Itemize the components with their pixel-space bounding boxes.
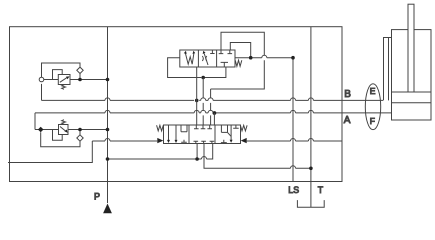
- wire DV1 outer pilot loop: [211, 32, 265, 89]
- relief valve RV1 diamond: [77, 67, 83, 73]
- svg-text:E: E: [370, 86, 376, 96]
- directional valve DV1 body: [180, 50, 235, 67]
- DV1 left port loop: [168, 58, 202, 78]
- relief valve RV1 spring: [62, 85, 66, 90]
- wire A line: [35, 112, 392, 114]
- wire x203.2 junction down to DV2: [202, 78, 204, 126]
- svg-text:A: A: [344, 115, 351, 126]
- hop B over P: [105, 98, 110, 101]
- hop A over LS: [291, 110, 296, 113]
- DV1 spring right: [235, 60, 242, 66]
- relief valve RV1 arrow: [60, 78, 67, 83]
- relief valve RV2 body: [59, 125, 69, 135]
- hop A over 196.7: [194, 110, 199, 113]
- relief valve RV2 pilot loop: [53, 130, 63, 141]
- hop A over P: [105, 110, 110, 113]
- DV2 pilot arrow right: [241, 138, 247, 143]
- junction LS top: [291, 56, 295, 60]
- junction y159 x197: [195, 157, 199, 161]
- DV1 middle cell metered arrow: [204, 54, 208, 66]
- wire pilot line left: [92, 140, 157, 142]
- relief valve RV2 main line: [35, 129, 108, 131]
- svg-text:T: T: [318, 185, 324, 195]
- wire loop to right port: [205, 67, 226, 78]
- hop A over T: [308, 110, 313, 113]
- node LS vertical: [292, 58, 294, 182]
- junction A x214.4: [213, 111, 217, 115]
- hop B over 203: [201, 98, 206, 101]
- wire A left corner to RV2: [34, 113, 36, 130]
- cylinder CYL1 body: [392, 30, 432, 120]
- wire DV2 bottom port x197: [196, 144, 198, 160]
- node T vertical: [310, 27, 312, 208]
- relief valve RV2 port diamond solid: [38, 127, 44, 133]
- DV1 spring pilot line: [235, 57, 293, 59]
- relief valve RV2 bypass line: [41, 132, 80, 146]
- wire x196.7 DV1 to B to DV2: [196, 67, 198, 125]
- junction RV1 at P: [106, 78, 110, 82]
- junction RV2 at P: [106, 128, 110, 132]
- wire diamond to main: [79, 74, 81, 80]
- svg-text:P: P: [94, 192, 100, 202]
- hop A over 203: [201, 110, 206, 113]
- relief valve RV2 arrow: [60, 127, 66, 132]
- bracket under LS T: [297, 200, 324, 207]
- wire B left corner to RV1 circle: [41, 84, 43, 101]
- wire DV1 inner pilot loop: [230, 43, 250, 58]
- DV1 middle cell blocked port: [210, 51, 214, 54]
- hop spring line over 264.3: [262, 55, 267, 58]
- port P arrow: [103, 204, 112, 214]
- cylinder piston: [392, 92, 432, 103]
- wire pilot line right: [247, 140, 342, 142]
- hop pilot left over P: [105, 139, 110, 142]
- manifold block outline: [10, 27, 343, 182]
- junction spring line x250.7: [249, 56, 253, 60]
- svg-text:LS: LS: [288, 185, 299, 195]
- wire P branch line y159: [108, 144, 213, 160]
- hop pilot right over T: [308, 139, 313, 142]
- hop tank line over LS: [291, 166, 296, 169]
- DV1 right cell blocked ports: [219, 51, 224, 54]
- wire pilot left down to edge line: [8, 141, 92, 163]
- DV2 middle cell blocked ports: [194, 126, 199, 129]
- svg-text:F: F: [370, 116, 375, 126]
- cylinder port pipe: [384, 38, 392, 101]
- wire DV2 bottom port x204 tank: [204, 144, 311, 169]
- hop pilot right over LS: [291, 139, 296, 142]
- DV1 left cell arrows: [185, 53, 194, 64]
- node P supply vertical: [107, 27, 109, 203]
- wire x214.4 A junction down to DV2: [213, 113, 215, 125]
- junction tank at T: [309, 167, 313, 171]
- wire diamond2 to main: [79, 130, 81, 135]
- hop y159 over 204: [202, 157, 207, 160]
- hop B over LS: [291, 98, 296, 101]
- wire B line: [42, 99, 384, 101]
- DV2 left cell paths: [168, 126, 170, 141]
- DV2 spring right: [240, 125, 247, 131]
- relief valve RV1 main line: [44, 79, 108, 81]
- relief valve RV2 diamond: [77, 135, 83, 141]
- relief valve RV1 port circle: [39, 77, 44, 82]
- hose ellipse EF: [365, 84, 380, 130]
- hop B over 210.6: [208, 98, 213, 101]
- svg-text:B: B: [344, 89, 351, 100]
- junction RV1 x80: [78, 78, 82, 82]
- relief valve RV1 pilot loop: [53, 70, 63, 80]
- DV2 pilot arrow left: [157, 138, 163, 143]
- junction y159 at P: [106, 157, 110, 161]
- relief valve RV2 spring: [62, 120, 66, 125]
- hop B over T: [308, 98, 313, 101]
- wire x210.6 corner down to DV2: [210, 89, 212, 125]
- DV2 right cell paths: [221, 126, 227, 133]
- directional valve DV2 body: [164, 125, 241, 144]
- hop A over 210.6: [208, 110, 213, 113]
- junction DV1 loop x203.2: [201, 76, 205, 80]
- junction RV2 x80: [78, 128, 82, 132]
- relief valve RV1 body: [58, 75, 70, 85]
- cylinder rod: [408, 4, 414, 92]
- relief valve RV1 bypass line: [42, 63, 81, 77]
- junction B x196.7: [195, 99, 199, 103]
- DV2 spring left: [157, 125, 164, 131]
